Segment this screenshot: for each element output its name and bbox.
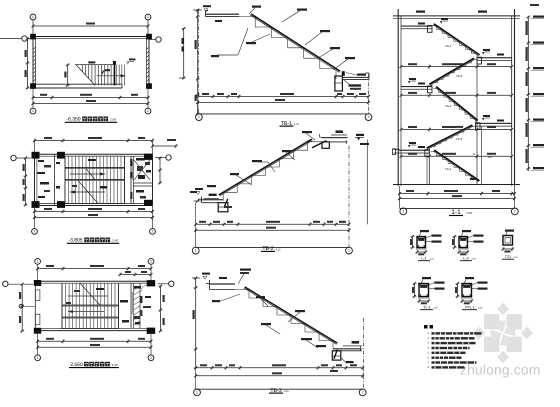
svg-text:1:25: 1:25 [283, 390, 289, 393]
svg-text:1:50: 1:50 [110, 118, 116, 122]
svg-text:5.: 5. [428, 351, 430, 354]
svg-text:1: 1 [198, 115, 200, 119]
svg-text:PTL-1: PTL-1 [465, 306, 475, 310]
svg-text:3.: 3. [428, 342, 430, 345]
svg-text:2: 2 [362, 391, 364, 395]
svg-text:2: 2 [368, 115, 370, 119]
svg-text:1:25: 1:25 [294, 123, 300, 126]
svg-text:1: 1 [32, 109, 34, 113]
svg-text:7.: 7. [428, 361, 430, 364]
svg-text:2: 2 [348, 249, 350, 253]
svg-text:1:50: 1:50 [466, 211, 472, 215]
svg-text:1: 1 [402, 210, 404, 214]
svg-text:1: 1 [195, 249, 197, 253]
svg-text:2: 2 [147, 109, 149, 113]
svg-text:2.: 2. [428, 337, 430, 340]
svg-text:1:50: 1:50 [112, 239, 118, 243]
svg-text:4.: 4. [428, 347, 430, 350]
svg-text:1: 1 [196, 391, 198, 395]
svg-text:1.: 1. [428, 332, 430, 335]
svg-text:TB-2: TB-2 [456, 74, 463, 78]
svg-text:2: 2 [150, 356, 152, 360]
svg-text:1: 1 [32, 15, 34, 19]
svg-text:8.: 8. [428, 366, 430, 369]
svg-text:6.: 6. [428, 356, 430, 359]
svg-text:900: 900 [488, 156, 493, 159]
svg-text:zhulong.com: zhulong.com [460, 363, 540, 378]
svg-text:TB-2: TB-2 [456, 137, 463, 141]
svg-text:TB-1: TB-1 [445, 167, 452, 171]
svg-text:1: 1 [37, 260, 39, 264]
svg-text:1:50: 1:50 [112, 363, 118, 367]
svg-text:2: 2 [514, 210, 516, 214]
svg-text:2: 2 [150, 260, 152, 264]
svg-text:2: 2 [152, 230, 154, 234]
svg-text:TB-1: TB-1 [445, 104, 452, 108]
svg-text:L-2: L-2 [463, 257, 468, 261]
svg-text:-3.805: -3.805 [68, 238, 82, 244]
svg-text:1: 1 [34, 230, 36, 234]
svg-text:-6.350: -6.350 [66, 117, 80, 123]
svg-text:TB-1: TB-1 [445, 44, 452, 48]
svg-text:1:25: 1:25 [275, 248, 281, 251]
svg-text:TZ1: TZ1 [505, 255, 511, 259]
svg-text:1: 1 [37, 356, 39, 360]
svg-text:L-1: L-1 [421, 257, 426, 261]
svg-text:2: 2 [147, 15, 149, 19]
svg-text:TL-1: TL-1 [423, 306, 430, 310]
svg-text:2.560: 2.560 [70, 362, 83, 368]
